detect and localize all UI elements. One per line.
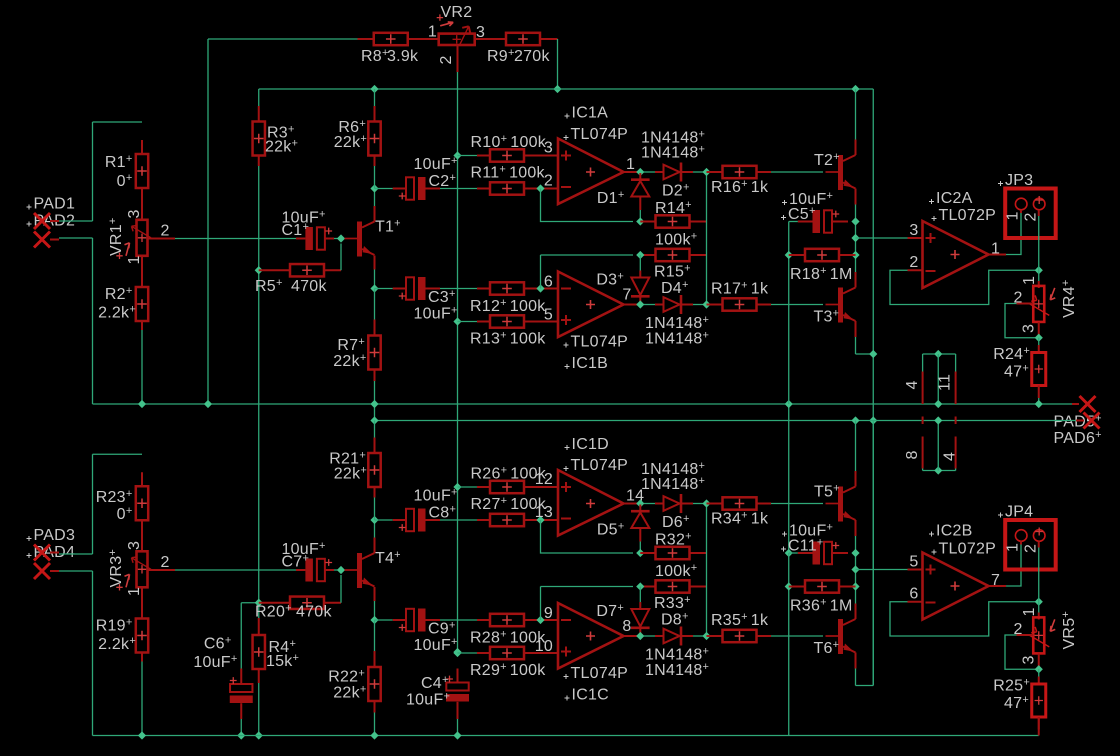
PAD1 lead <box>50 220 59 222</box>
label IC2A <box>929 199 934 204</box>
junction C5-column/mid rail <box>785 400 793 408</box>
svg-text:2: 2 <box>909 254 918 271</box>
resistor R13 100k <box>490 315 524 327</box>
wire IC2A out to JP3 <box>1006 213 1021 255</box>
resistor R32 100k <box>656 547 690 559</box>
C7 left lead <box>296 569 305 571</box>
wire R8-left riser <box>207 39 209 404</box>
svg-text:PAD3: PAD3 <box>34 527 76 544</box>
R11 left lead <box>477 188 490 190</box>
svg-text:TL074P: TL074P <box>571 665 629 682</box>
wire IC2A feedback <box>890 270 1039 304</box>
svg-text:7: 7 <box>622 287 631 304</box>
wire R21 to C8 node <box>374 498 376 521</box>
junction bias/R13 <box>453 317 461 325</box>
IC2A pin 3 <box>908 237 923 239</box>
junction R11/fb <box>536 184 544 192</box>
wire T4 collector <box>374 520 376 538</box>
label IC1A value <box>564 135 569 140</box>
IC2B pin 5 <box>908 569 923 571</box>
R9 right lead <box>540 38 558 40</box>
resistor R7 22k <box>368 336 380 370</box>
wire upper rail <box>259 88 874 90</box>
wire C11/R36 to rail <box>788 553 790 736</box>
wire IC1A out to D2 <box>644 171 655 173</box>
svg-text:3.9k: 3.9k <box>387 48 419 65</box>
IC2 pin 4 tick <box>955 417 957 425</box>
wire rail to T2 collector <box>855 89 857 140</box>
junction <box>138 400 146 408</box>
wire C6 tap <box>241 602 259 604</box>
pad PAD2 symbol <box>34 232 50 248</box>
junction VR5.3 <box>1035 665 1043 673</box>
D2 cathode lead <box>681 171 693 173</box>
junction C1/T1 <box>337 234 345 242</box>
svg-text:2: 2 <box>438 55 455 64</box>
diode D1 1N4148 <box>631 180 650 197</box>
capacitor C6 10uF <box>230 677 253 703</box>
wire bias string <box>258 270 260 603</box>
svg-text:IC2A: IC2A <box>936 190 973 207</box>
R12 right lead <box>524 288 547 290</box>
T3 emitter <box>855 321 857 337</box>
label PAD2 <box>27 222 32 227</box>
svg-text:2: 2 <box>161 223 170 240</box>
op-amp IC1A TL074P <box>558 139 624 205</box>
junction R33 left <box>636 582 644 590</box>
wire R34 to T5 <box>771 503 823 505</box>
VR2-R9 lead <box>475 38 506 40</box>
wire R24 to mid rail <box>1038 398 1040 404</box>
junction feedback/JP3.2 <box>1035 266 1043 274</box>
svg-text:1: 1 <box>1021 607 1038 616</box>
wire R33 to D7 <box>639 587 641 603</box>
wire VR4 to R24 <box>1038 338 1040 345</box>
wire pin11 stub <box>955 354 957 372</box>
C4 top lead <box>457 669 459 682</box>
svg-text:IC1B: IC1B <box>572 355 609 372</box>
svg-text:TL074P: TL074P <box>571 457 629 474</box>
label IC1C <box>565 696 570 701</box>
wire bracket to rail <box>937 354 939 404</box>
transistor T4 <box>345 553 375 588</box>
resistor R19 <box>136 619 148 653</box>
diode D5 1N4148 <box>631 511 650 528</box>
svg-text:1N4148+: 1N4148+ <box>645 314 709 332</box>
svg-text:IC1D: IC1D <box>572 436 609 453</box>
wire power bracket bottom <box>923 470 956 472</box>
svg-text:11: 11 <box>937 374 954 391</box>
wire to R26 <box>458 486 478 488</box>
junction R36 right <box>851 582 859 590</box>
R34 left lead <box>707 503 723 505</box>
wire <box>693 503 707 505</box>
junction T5 collector <box>851 416 859 424</box>
wire JP3.2 down <box>1038 216 1040 281</box>
wire T1 collector <box>374 189 376 207</box>
label C5 <box>781 215 786 220</box>
junction riser/T3 <box>869 350 877 358</box>
wire C4 to rail <box>457 719 459 736</box>
wire <box>639 210 641 222</box>
resistor R2 <box>136 287 148 321</box>
wire R22 to mid rail <box>374 713 376 736</box>
junction R32 left <box>636 549 644 557</box>
connector JP3 <box>1005 189 1055 239</box>
wire <box>59 553 93 555</box>
potentiometer VR1 <box>116 220 151 259</box>
diode D3 1N4148 <box>631 278 650 297</box>
VR5 pin2 lead <box>1017 634 1034 636</box>
D1 anode lead <box>639 198 641 211</box>
resistor R9 270k <box>506 33 540 45</box>
R14 left lead <box>640 221 656 223</box>
svg-text:3: 3 <box>126 209 143 218</box>
R1-VR1 lead <box>141 188 143 220</box>
R8-VR2 lead <box>408 38 440 40</box>
R5 right lead <box>324 269 341 271</box>
D1 cathode lead <box>639 173 641 179</box>
wire C6 to rail <box>240 719 242 736</box>
C5 right lead <box>832 221 848 223</box>
R10 right lead <box>524 155 547 157</box>
wire <box>693 171 707 173</box>
diode D7 1N4148 <box>631 609 650 628</box>
capacitor C7 10uF <box>305 559 332 582</box>
svg-text:3: 3 <box>1021 655 1038 664</box>
wire to T6 collector <box>855 587 857 604</box>
wire T4 emitter <box>374 601 376 620</box>
svg-text:1: 1 <box>1005 543 1022 552</box>
VR1-R2 lead <box>141 256 143 288</box>
resistor R34 1k <box>723 497 757 509</box>
label PAD3 <box>27 536 32 541</box>
R18 right lead <box>839 254 856 256</box>
wire IC2B out to JP4 <box>1006 545 1021 587</box>
T4 emitter lead <box>374 587 376 601</box>
wire C5 left <box>789 221 798 223</box>
R26 left lead <box>477 486 490 488</box>
IC1 pin 4 <box>922 372 924 405</box>
R6 top lead <box>374 106 376 122</box>
wire IC2B feedback <box>890 602 1039 636</box>
wire R35 to T6 <box>771 635 823 637</box>
junction power bracket <box>934 350 942 358</box>
wire to R23 <box>93 453 143 455</box>
wire pin8 stub <box>922 469 924 471</box>
C11 left lead <box>798 552 814 554</box>
R12 left lead <box>477 288 490 290</box>
C7 right lead <box>325 569 334 571</box>
junction IC1C out <box>636 632 644 640</box>
C3 right lead <box>426 288 441 290</box>
junction <box>370 400 378 408</box>
resistor R1 <box>136 154 148 188</box>
wire VR1.2 to C1 <box>175 238 296 240</box>
junction <box>1035 400 1043 408</box>
wire mid rail <box>93 403 1073 405</box>
wire T4 emitter to R22 <box>374 620 376 651</box>
capacitor C9 10uF <box>399 609 426 632</box>
op-amp IC1B TL074P <box>558 272 624 338</box>
resistor R11 100k <box>490 182 524 194</box>
junction bias/R10 <box>453 151 461 159</box>
junction R28/fb <box>536 616 544 624</box>
junction <box>138 731 146 739</box>
junction IC1B out <box>636 300 644 308</box>
wire emitter riser <box>872 89 874 686</box>
C1 right lead <box>325 238 334 240</box>
pad PAD6 symbol <box>1084 413 1100 429</box>
PAD3 lead <box>50 552 59 554</box>
junction C7/T4 <box>337 566 345 574</box>
svg-text:3: 3 <box>126 541 143 550</box>
R23-VR3 lead <box>141 520 143 551</box>
label IC1D <box>565 445 570 450</box>
junction R6 top <box>370 85 378 93</box>
junction D8/R35 <box>702 632 710 640</box>
junction R3/R5 <box>255 266 263 274</box>
svg-text:8: 8 <box>904 450 921 459</box>
label IC1D value <box>564 466 569 471</box>
wire rail to R21 <box>374 421 376 438</box>
IC2A pin 2 <box>908 269 923 271</box>
C6 top lead <box>240 669 242 684</box>
potentiometer VR2 <box>437 14 475 45</box>
svg-text:8: 8 <box>622 618 631 635</box>
junction R18 right <box>851 251 859 259</box>
label IC1A <box>565 114 570 119</box>
svg-text:PAD1: PAD1 <box>34 196 76 213</box>
svg-text:470k: 470k <box>296 604 332 621</box>
wire R7 to mid rail <box>374 381 376 404</box>
IC1C output pin 8 <box>624 635 641 637</box>
wire C11 left <box>789 552 798 554</box>
connector JP4 <box>1005 520 1055 570</box>
wire R16 to T2 <box>771 171 823 173</box>
wire T6 emitter to riser <box>856 685 874 687</box>
svg-text:4: 4 <box>942 452 959 461</box>
junction C5 right <box>851 217 859 225</box>
wire PAD4 to bottom rail <box>92 571 94 736</box>
svg-text:1: 1 <box>126 255 143 264</box>
D4 anode lead <box>655 304 664 306</box>
label IC1C value <box>564 674 569 679</box>
op-amp IC1C TL074P <box>558 603 624 669</box>
T5 collector <box>855 471 857 487</box>
R25 bottom lead to rail <box>1038 717 1040 736</box>
IC2B output pin 7 <box>989 585 1007 587</box>
wire to C9 <box>375 619 393 621</box>
wire T3 emitter down <box>855 337 857 354</box>
wire rail to R6 <box>374 89 376 106</box>
wire IC1B pin6 fb <box>540 255 542 289</box>
svg-text:13: 13 <box>535 504 553 521</box>
C8 left lead <box>393 519 406 521</box>
T3 collector <box>855 272 857 288</box>
C9 right lead <box>426 619 441 621</box>
PAD5 lead <box>1072 403 1079 405</box>
IC1B pin 6 <box>547 288 559 290</box>
R21 top lead <box>374 438 376 454</box>
wire <box>59 237 93 239</box>
svg-text:2: 2 <box>1023 212 1040 221</box>
R33 left lead <box>640 586 656 588</box>
op-amp IC1D TL074P <box>558 470 624 536</box>
resistor R17 1k <box>723 298 757 310</box>
VR4 pin1 lead <box>1038 281 1040 288</box>
VR5 pin1 lead <box>1038 613 1040 620</box>
IC1B output pin 7 <box>624 304 641 306</box>
svg-text:1N4148+: 1N4148+ <box>645 661 709 679</box>
wire R5 to T1 base <box>340 244 342 271</box>
R15 left lead <box>640 254 656 256</box>
diode D8 1N4148 <box>664 627 682 646</box>
IC1C pin 10 <box>547 652 559 654</box>
R20 left lead <box>259 602 290 604</box>
wire power bracket top <box>923 353 956 355</box>
IC1A output pin 1 <box>624 171 641 173</box>
C1 left lead <box>296 238 305 240</box>
wire to C3 <box>375 288 393 290</box>
junction D6/R34 <box>702 499 710 507</box>
R29 left lead <box>477 652 490 654</box>
junction power/lower rail <box>934 416 942 424</box>
wire <box>92 122 94 221</box>
resistor R10 100k <box>490 149 524 161</box>
wire VR4.2 to .3 <box>1005 304 1039 338</box>
VR5 pin3 lead <box>1038 654 1040 670</box>
R2 bottom lead <box>141 321 143 330</box>
R29 right lead <box>524 652 547 654</box>
capacitor C4 10uF <box>446 676 469 702</box>
junction R4/rail <box>255 731 263 739</box>
C3 left lead <box>393 288 406 290</box>
JP3 pin1 lead <box>1020 210 1022 213</box>
T2 emitter <box>855 189 857 205</box>
diode D6 1N4148 <box>664 494 682 513</box>
svg-text:270k: 270k <box>514 48 550 65</box>
resistor R22 22k <box>368 667 380 701</box>
R22 top lead <box>374 651 376 668</box>
wire VR3.2 to C7 <box>175 569 296 571</box>
PAD6 lead <box>1076 420 1084 422</box>
label IC1B value <box>564 343 569 348</box>
resistor R36 1M <box>805 580 839 592</box>
wire R9 to y89 rail <box>557 39 559 89</box>
pad PAD4 symbol <box>34 563 50 579</box>
wire C8 to R27 <box>440 519 477 521</box>
R23 top lead <box>141 472 143 486</box>
wire rail link <box>374 404 376 421</box>
R17 left lead <box>707 304 723 306</box>
R20 right lead <box>324 602 341 604</box>
C8 right lead <box>426 519 441 521</box>
label PAD1 <box>27 205 32 210</box>
R7 bottom lead <box>374 370 376 382</box>
R35 right lead <box>757 635 772 637</box>
wire to C2 <box>375 188 393 190</box>
D3 anode lead <box>639 271 641 278</box>
resistor R12 100k <box>490 282 524 294</box>
R16 right lead <box>757 171 772 173</box>
D8 anode lead <box>655 635 664 637</box>
wire <box>59 570 93 572</box>
wire T1 emitter to R7 <box>374 289 376 320</box>
wire T6 emitter down <box>855 669 857 686</box>
svg-text:TL074P: TL074P <box>571 126 629 143</box>
R19 bottom lead <box>141 653 143 662</box>
label JP4 <box>998 513 1003 518</box>
capacitor C8 10uF <box>399 509 426 532</box>
R8 left lead <box>358 38 375 40</box>
diode D2 1N4148 <box>664 163 682 182</box>
junction bias/R29 <box>453 649 461 657</box>
R3 bottom lead <box>258 156 260 167</box>
IC1D pin 12 <box>547 486 559 488</box>
VR2 pin2 lead <box>457 45 459 72</box>
R25 bottom lead <box>1038 717 1040 730</box>
transistor T6 <box>826 619 856 654</box>
wire T3 emitter to riser <box>856 353 874 355</box>
junction C6/rail <box>237 731 245 739</box>
svg-text:IC1C: IC1C <box>572 687 609 704</box>
R11 right lead <box>524 188 547 190</box>
VR4 pin3 lead <box>1038 322 1040 338</box>
pad PAD1 symbol <box>34 213 50 229</box>
junction C11 right <box>851 549 859 557</box>
wire R19 to rail <box>141 662 143 736</box>
JP3 pin2 lead <box>1038 210 1040 216</box>
label PAD4 <box>27 553 32 558</box>
wire C9 to R28 <box>440 619 477 621</box>
wire to C8 <box>375 519 393 521</box>
wire C5/C11 column <box>788 404 790 553</box>
resistor R4 15k <box>253 635 265 669</box>
junction C4/rail <box>453 731 461 739</box>
svg-text:1N4148+: 1N4148+ <box>645 646 709 664</box>
R16 left lead <box>707 171 723 173</box>
resistor R35 1k <box>723 630 757 642</box>
label C11 <box>781 547 786 552</box>
potentiometer VR3 <box>116 551 151 590</box>
junction C4/R29 <box>453 648 461 656</box>
R21 bottom lead <box>374 487 376 498</box>
R27 right lead <box>524 519 547 521</box>
wire R4 to bottom rail <box>258 683 260 736</box>
svg-text:TL072P: TL072P <box>939 541 997 558</box>
wire <box>92 454 94 554</box>
svg-text:VR2: VR2 <box>441 4 473 21</box>
wire to R13 <box>458 321 478 323</box>
C11 right lead <box>832 552 848 554</box>
wire to T3 collector <box>855 255 857 272</box>
junction IC2A +in <box>851 234 859 242</box>
wire VR2 wiper bias line <box>457 72 459 652</box>
VR3-R19 lead <box>141 587 143 619</box>
resistor R5 470k <box>290 264 324 276</box>
junction R27/fb <box>536 516 544 524</box>
R4 bottom lead <box>258 670 260 684</box>
wire C3 to R12 <box>440 288 477 290</box>
capacitor C2 10uF <box>399 177 426 200</box>
svg-text:1: 1 <box>428 24 437 41</box>
D6 anode lead <box>655 503 664 505</box>
resistor R14 100k <box>656 215 690 227</box>
wire JP4.2 down <box>1038 548 1040 613</box>
junction R12/fb <box>536 284 544 292</box>
D5 cathode lead <box>639 505 641 511</box>
